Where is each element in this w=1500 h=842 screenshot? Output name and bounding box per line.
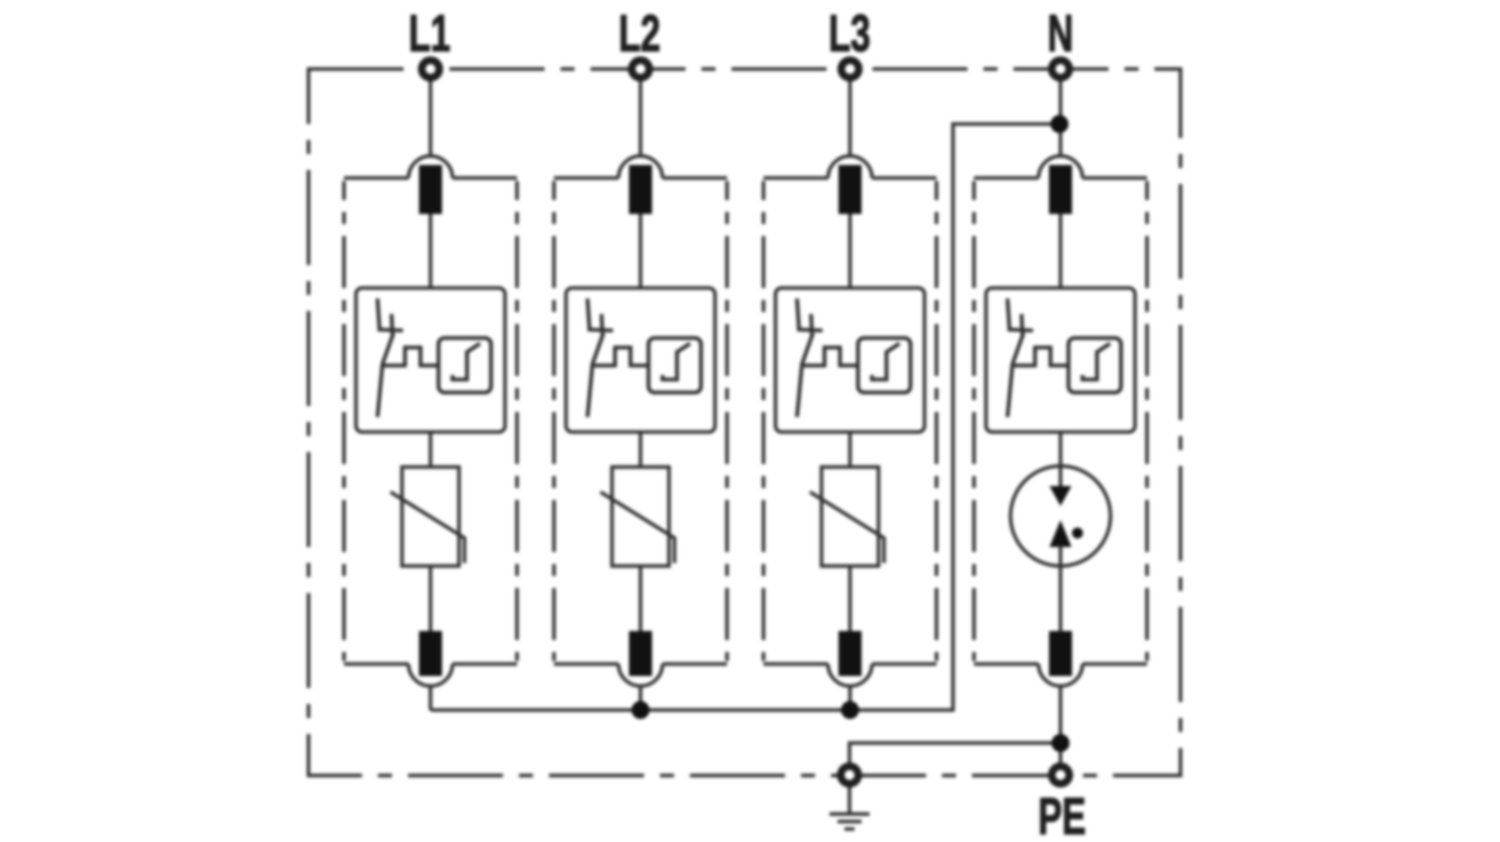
svg-text:N: N — [1048, 6, 1074, 63]
svg-text:L1: L1 — [409, 6, 451, 63]
svg-text:PE: PE — [1038, 789, 1086, 842]
svg-text:L2: L2 — [619, 6, 661, 63]
svg-text:L3: L3 — [829, 6, 871, 63]
